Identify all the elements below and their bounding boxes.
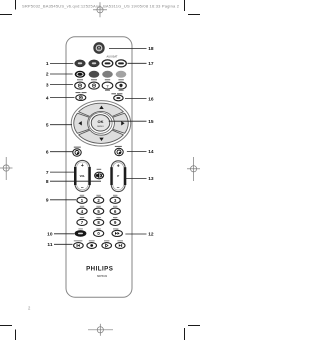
- callout 7: [46, 170, 75, 176]
- svg-text:5: 5: [46, 122, 49, 128]
- arrow up: [99, 106, 103, 109]
- svg-text:7: 7: [46, 170, 49, 176]
- navigation pad outer ring: [71, 101, 131, 146]
- surround button: [76, 95, 86, 101]
- label above key A: [77, 79, 83, 80]
- svg-text:AUX/SAT: AUX/SAT: [107, 55, 118, 59]
- callout 5: [46, 122, 72, 128]
- callout 6: [46, 149, 73, 155]
- crop mark top-right: [185, 0, 201, 15]
- digit 1: [77, 197, 87, 203]
- svg-text:6: 6: [46, 149, 49, 155]
- digit 5: [94, 208, 104, 214]
- svg-text:18: 18: [148, 46, 154, 52]
- crop mark bottom-right: [185, 326, 201, 340]
- label menu small: [74, 147, 81, 148]
- digit 3: [110, 197, 120, 203]
- svg-text:SRP5032_BA3545US_v6.qxd:12525A: SRP5032_BA3545US_v6.qxd:12525And_BA5311G…: [22, 3, 180, 8]
- svg-text:4: 4: [46, 95, 49, 101]
- svg-text:3: 3: [46, 82, 49, 88]
- av button: [75, 230, 87, 237]
- svg-text:P: P: [117, 174, 119, 178]
- svg-text:2: 2: [46, 72, 49, 78]
- registration mark right: [187, 157, 200, 181]
- callout 12: [125, 232, 153, 238]
- transport button ff: [115, 243, 125, 249]
- arrow left: [78, 121, 81, 125]
- svg-text:MENU: MENU: [97, 126, 104, 128]
- arrow down: [99, 138, 103, 141]
- digit labels row2: [80, 206, 84, 207]
- nav key right: [113, 113, 129, 133]
- callout 9: [46, 198, 76, 204]
- callout 1: [46, 61, 73, 67]
- source button DVD: [89, 60, 100, 67]
- digit 4: [77, 208, 87, 214]
- svg-text:9: 9: [46, 198, 49, 204]
- registration mark bottom-center: [88, 324, 113, 336]
- svg-text:10: 10: [47, 232, 53, 238]
- svg-text:12: 12: [148, 232, 154, 238]
- label below key C: [105, 90, 110, 91]
- svg-text:1: 1: [46, 61, 49, 67]
- callout 11: [47, 242, 72, 248]
- mute button: [95, 172, 104, 179]
- transport button play: [102, 243, 112, 249]
- svg-text:13: 13: [148, 176, 154, 182]
- digit labels row3: [80, 217, 84, 218]
- callout 3: [46, 82, 73, 88]
- menu button: [73, 149, 81, 156]
- svg-text:−: −: [117, 185, 120, 191]
- transport labels: [74, 240, 83, 241]
- label mute small: [97, 169, 102, 170]
- function key 1: [75, 82, 86, 89]
- volume rocker: [74, 160, 91, 191]
- callout 14: [127, 149, 154, 155]
- digit 0: [94, 230, 104, 236]
- scan button: [112, 230, 122, 236]
- label STB MENU: [111, 93, 116, 94]
- label above key B: [91, 79, 97, 80]
- label above key C: [105, 79, 110, 80]
- source button TV: [75, 60, 86, 67]
- label above key D: [118, 79, 123, 80]
- callout 15: [109, 119, 154, 125]
- callout 4: [46, 95, 75, 101]
- source button SAT: [116, 60, 127, 67]
- digit 2: [94, 197, 104, 203]
- power button: [93, 42, 104, 54]
- source button VCR: [102, 60, 113, 67]
- callout 18: [109, 46, 154, 52]
- crop mark top-left: [0, 0, 16, 15]
- digit labels row1: [80, 195, 84, 196]
- svg-text:17: 17: [148, 61, 154, 67]
- crop mark bottom-left: [0, 326, 16, 340]
- OK button: [89, 113, 112, 134]
- function key 2: [89, 82, 100, 89]
- svg-text:16: 16: [148, 96, 154, 102]
- color key red: [75, 71, 86, 78]
- svg-text:OK: OK: [98, 119, 104, 124]
- label SRS WOW: [76, 92, 81, 93]
- svg-text:8: 8: [46, 179, 49, 185]
- svg-text:11: 11: [47, 242, 52, 248]
- scan label: [113, 228, 118, 229]
- callout 17: [127, 61, 153, 67]
- nav key left: [74, 113, 90, 133]
- digit 8: [94, 219, 104, 225]
- callout 13: [126, 176, 154, 182]
- svg-text:14: 14: [148, 149, 154, 155]
- transport button rew: [74, 243, 84, 249]
- digit 7: [77, 219, 87, 225]
- nav key down: [79, 130, 124, 143]
- callout 2: [46, 72, 73, 78]
- color key blue: [116, 71, 127, 78]
- digit 6: [110, 208, 120, 214]
- svg-text:15: 15: [148, 119, 154, 125]
- color key green: [89, 71, 100, 78]
- remote body outline: [66, 37, 132, 297]
- svg-text:SRP5032: SRP5032: [97, 275, 108, 278]
- nav key up: [79, 103, 124, 116]
- callout 16: [125, 96, 154, 102]
- color key yellow: [102, 71, 113, 78]
- registration mark top-center: [93, 2, 107, 17]
- arrow right: [121, 121, 124, 125]
- svg-text:−: −: [81, 185, 84, 191]
- stb menu button: [114, 95, 123, 101]
- svg-text:VOL: VOL: [80, 174, 86, 178]
- label below key D: [119, 90, 124, 91]
- function key 3: [102, 82, 113, 89]
- label exit small: [115, 146, 122, 147]
- callout 10: [47, 232, 74, 238]
- digit 9: [110, 219, 120, 225]
- exit button: [115, 148, 123, 155]
- function key 4: [116, 82, 127, 89]
- transport button rec: [87, 243, 97, 249]
- svg-text:+: +: [117, 164, 120, 170]
- registration mark left: [0, 157, 13, 180]
- svg-text:PHILIPS: PHILIPS: [86, 265, 113, 272]
- callout 8: [46, 179, 101, 185]
- svg-text:+: +: [81, 163, 84, 169]
- program rocker: [110, 161, 126, 192]
- av label: [78, 228, 82, 229]
